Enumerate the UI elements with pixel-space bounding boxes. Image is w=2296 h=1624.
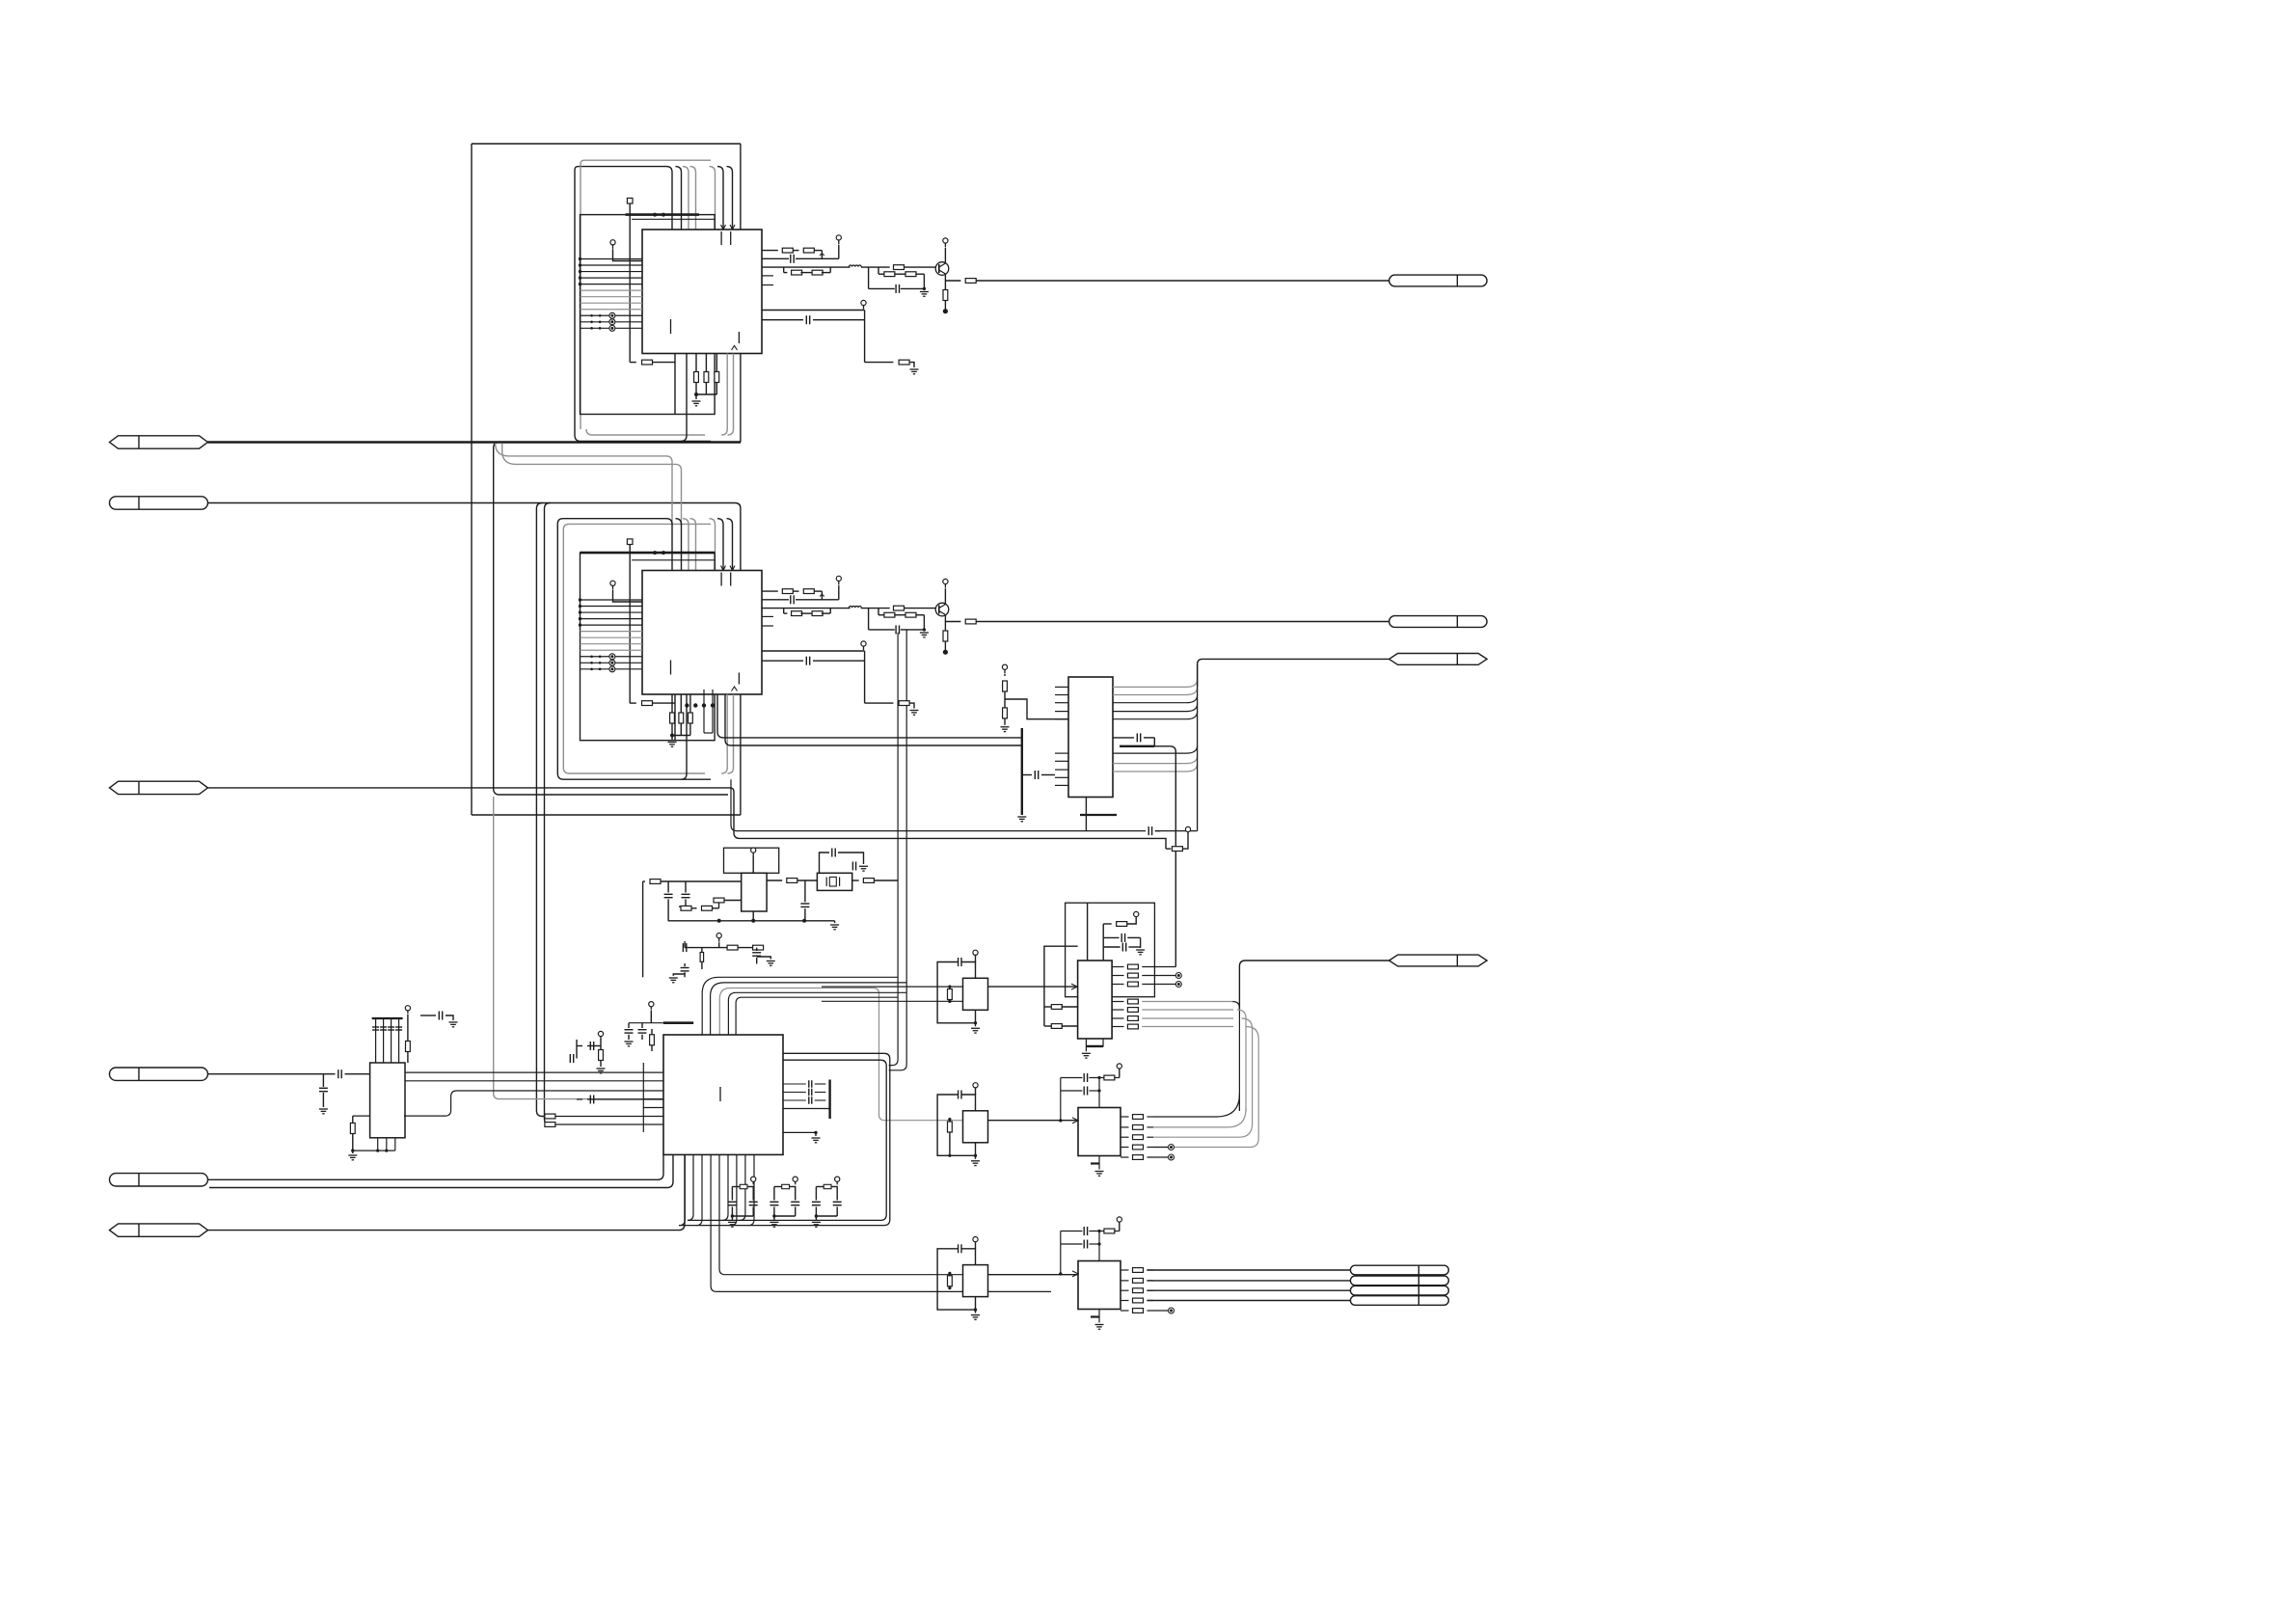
- IC5 right pin to dot gnd: [783, 1131, 816, 1133]
- secondary inner line U2: [632, 559, 715, 561]
- lower right pin rows U2: [762, 650, 865, 652]
- IC10 right terminal cap: [420, 1015, 436, 1016]
- wire terminal to IC U2: [613, 590, 643, 602]
- wires from IC10 to IC5: [404, 1071, 643, 1073]
- oscillator loop rect: [724, 848, 779, 873]
- IC3 right pins to bus: [1113, 686, 1186, 688]
- wire from square pad down U2: [629, 545, 631, 704]
- bus bundle IC5-top to right: [702, 977, 871, 1035]
- IC internal bottom strokes U2: [670, 661, 672, 675]
- wire to IC4 vertical: [1154, 746, 1175, 967]
- wire RPa long: [976, 280, 1389, 282]
- row C main U1: [763, 266, 851, 268]
- crystal symbol: [829, 877, 836, 886]
- outer frame block2 bottom: [472, 814, 741, 816]
- gray bus wire to lower clusters: [871, 988, 963, 1121]
- junction dots on bus U1: [653, 213, 657, 217]
- ground IC3 bus: [1017, 816, 1026, 818]
- IC10 top pins bus: [375, 1018, 377, 1063]
- IC10 bottom pins: [377, 1138, 379, 1150]
- left loop IC8: [1060, 1078, 1062, 1121]
- IC10 top terminal: [405, 1006, 410, 1011]
- ladder tap wire: [1005, 699, 1068, 719]
- output resistor U2: [945, 621, 960, 623]
- wire RPb long: [976, 621, 1389, 623]
- IC3 bottom resistor row: [1166, 848, 1171, 850]
- ladder ground: [1001, 726, 1010, 728]
- IC3 top-right cap: [1113, 737, 1134, 739]
- caps pair osc: [667, 881, 669, 893]
- inner rect U1: [581, 215, 716, 415]
- wire A out: [988, 986, 1078, 988]
- ground IC10: [352, 1150, 354, 1153]
- top pin bundle arcs U2: [666, 519, 672, 571]
- row A hook down U1: [821, 251, 823, 259]
- wire P5b: [209, 1155, 673, 1188]
- junction dots on bus U2: [653, 551, 657, 555]
- transistor Q U2: [935, 603, 949, 616]
- wire IC2 to IC3 row1: [717, 694, 1022, 738]
- inner heavy bus line U2: [581, 552, 716, 555]
- pi ground U2: [920, 632, 929, 634]
- antenna terminal U2: [610, 581, 615, 585]
- halo frame U1 bottom: [575, 435, 711, 442]
- bottom pin long drops: [711, 1155, 1051, 1292]
- IC internal top strokes U2: [720, 573, 722, 586]
- buffer box B: [963, 1111, 988, 1143]
- caps battery bus: [828, 1080, 830, 1120]
- wire P5: [208, 1155, 664, 1180]
- IC5 right pin row plain: [783, 1108, 830, 1110]
- emitter node dot U1: [943, 309, 948, 313]
- cap row1 IC9: [1061, 1231, 1083, 1232]
- wire gray drop left 2: [502, 444, 682, 527]
- filter cap3: [684, 963, 686, 966]
- capacitor on P4 wire: [338, 1069, 339, 1078]
- buffer box C: [963, 1265, 988, 1297]
- ground pedestal IC9: [1098, 1310, 1100, 1323]
- outer frame right block1: [740, 144, 742, 230]
- IC3 (IF/demod IC): [1068, 677, 1113, 798]
- IC4 bottom pedestal: [1086, 1039, 1103, 1046]
- circled dots IC4: [1175, 973, 1181, 979]
- power terminal U2 rowB: [836, 576, 841, 581]
- IC3 bottom heavy bar: [1080, 814, 1117, 816]
- IC3 left cap: [1022, 774, 1032, 776]
- IC3 left bold ground bus: [1021, 728, 1023, 815]
- stub down to res-gnd U1: [864, 320, 866, 363]
- wire from square pad down U1: [629, 203, 631, 363]
- secondary inner line U1: [632, 218, 715, 220]
- IC10 right mid pin wire up: [404, 1091, 643, 1116]
- wire P6: [208, 1155, 686, 1231]
- resistor divider B: [949, 1120, 951, 1122]
- pwr C: [973, 1237, 978, 1242]
- top pin bundle arcs U1: [666, 167, 672, 230]
- wire IC2 to IC3 row2: [725, 694, 1022, 745]
- bottom long pins U1: [681, 354, 687, 442]
- capacitor to ground on P4 node: [322, 1074, 324, 1087]
- IC4 gray bundle corners: [1232, 1002, 1239, 1112]
- cap row2 IC8: [1061, 1090, 1083, 1092]
- filter resistors: [727, 945, 738, 950]
- power terminal oscillator: [751, 848, 756, 853]
- left pin rows U2: [581, 599, 643, 601]
- crystal out resistor: [852, 880, 859, 881]
- IC5 right-side caps battery: [783, 1083, 806, 1085]
- IC internal bottom strokes U1: [670, 319, 672, 334]
- terminal bottom right of IC3: [1185, 826, 1190, 831]
- cap row1 IC8: [1061, 1077, 1083, 1079]
- IF filter cluster: [716, 934, 721, 938]
- ferrite bead U2: [849, 607, 861, 609]
- stub down to res-gnd U2: [864, 661, 866, 703]
- input arrow IC9: [1072, 1271, 1078, 1277]
- IC3 left pins: [1055, 686, 1068, 688]
- dotted rows U1: [590, 314, 593, 317]
- cap top C: [958, 1244, 959, 1253]
- IC5 right output rail inner: [783, 1059, 880, 1061]
- row A hook down U2: [821, 591, 823, 600]
- IC3 right bus vertical: [1197, 664, 1199, 831]
- IC5 (PLL/controller): [663, 1035, 783, 1154]
- lower right pin rows U1: [762, 310, 865, 311]
- row A resistors U2: [763, 590, 778, 592]
- IC5 left pin strip: [642, 1063, 644, 1132]
- cap under crystal-right: [804, 880, 806, 902]
- buffer box A: [963, 978, 988, 1010]
- cap trio under IC5: [751, 1177, 756, 1181]
- connector stack RP4 (4 stadium pills): [1350, 1265, 1448, 1275]
- connector RPb (stadium right): [1390, 616, 1488, 628]
- connector P3 (bidirectional arrow): [110, 781, 208, 794]
- wire P2 corner into frame: [735, 503, 741, 509]
- wire pi to lower section B U2: [889, 630, 907, 1070]
- right resistors IC8: [1121, 1116, 1129, 1118]
- ground: [319, 1108, 328, 1110]
- resistor divider A: [949, 987, 951, 988]
- cap top B: [958, 1091, 959, 1099]
- gnd A: [975, 1010, 977, 1023]
- wire P2: [208, 502, 736, 504]
- IC4 frame caps: [1087, 903, 1089, 961]
- square pad terminal U2: [627, 539, 633, 545]
- bottom pin junction dots U2: [685, 703, 689, 707]
- left vertical drop to bundle: [642, 881, 644, 977]
- pwr A: [973, 950, 978, 955]
- wire C out: [988, 1274, 1079, 1276]
- res row1 IC8: [1104, 1075, 1115, 1080]
- row B cap U1: [763, 257, 790, 259]
- antenna terminal U1: [610, 240, 615, 245]
- loop wire B: [961, 1095, 976, 1111]
- bottom long pins U2: [681, 694, 687, 779]
- inner heavy bus line U1: [626, 213, 700, 216]
- bottom-left resistor U2: [630, 702, 636, 704]
- emitter chain U2: [944, 616, 946, 622]
- crystal box: [817, 873, 851, 890]
- divider RP4: [1418, 1265, 1419, 1305]
- halo frame U2 (rounded): [557, 519, 666, 773]
- IC internal bottom arrow U1: [732, 346, 738, 351]
- wire P1 bold to frame: [208, 441, 742, 443]
- IC IC9 (output driver): [1078, 1261, 1121, 1310]
- left pin rows U1: [581, 258, 643, 260]
- IC2 bottom pin to frame bottom: [740, 694, 742, 815]
- IC5 left pins: [643, 1071, 663, 1073]
- wire gray drop left 1: [496, 444, 672, 527]
- pi network U1: [868, 267, 870, 288]
- IC5 upper-left decoupling cluster: [598, 1031, 603, 1036]
- osc to crystal resistor: [767, 880, 782, 881]
- connector P1 (ANT input, bidirectional arrow): [110, 436, 208, 448]
- resistor divider ladder: [1002, 664, 1007, 669]
- base resistor on row C U1: [894, 265, 905, 270]
- right pins stubs U1: [762, 275, 773, 277]
- cap top A: [958, 958, 959, 966]
- pi res pair U2: [878, 609, 879, 615]
- connector RPa (stadium right): [1390, 275, 1487, 286]
- halo frame U1 (rounded): [575, 167, 666, 435]
- parallel res pair under rowB U1: [783, 267, 785, 273]
- right resistors IC9: [1121, 1269, 1129, 1271]
- connector P4 (stadium): [109, 1068, 207, 1080]
- wires RP4 from IC9: [1147, 1269, 1350, 1271]
- res to osc box: [714, 898, 724, 903]
- IC4 left loop wire: [1044, 946, 1078, 1026]
- power terminal IC8: [1117, 1064, 1121, 1069]
- inner rounded loop block2: [494, 443, 728, 796]
- base resistor on row C U2: [894, 606, 905, 610]
- connector RPc (arrow right): [1390, 654, 1488, 665]
- IC5 bottom pins bundle: [679, 1155, 685, 1226]
- collector terminal U2: [943, 579, 948, 583]
- bus bundle continues right: [871, 976, 898, 978]
- terminal on lower rows U2: [861, 641, 866, 646]
- IC IC8 (output driver): [1078, 1108, 1121, 1156]
- pi ground U1: [920, 291, 929, 293]
- gnd B: [975, 1143, 977, 1156]
- connector P5 (stadium): [109, 1174, 207, 1186]
- res row1 IC9: [1104, 1229, 1115, 1233]
- bottom resistor pins U1: [695, 354, 697, 372]
- resistor divider C: [949, 1273, 951, 1275]
- bottom-left resistor U1: [630, 362, 636, 364]
- output resistor U1: [945, 280, 960, 282]
- cap row2 IC9: [1061, 1243, 1083, 1245]
- wire P3: [208, 788, 1167, 849]
- IC5 left caps pair 2: [649, 1002, 654, 1007]
- IC1 bottom pin to bold wire: [740, 354, 742, 443]
- left loop IC9: [1060, 1232, 1062, 1274]
- wire pi to lower section A U2: [889, 633, 899, 1066]
- gray vertical from heavy line to IC5: [494, 797, 644, 1099]
- collector terminal U1: [943, 238, 948, 243]
- wire RPc from IC3 bus: [1198, 659, 1390, 687]
- ferrite bead U1: [849, 265, 861, 267]
- row B cap U2: [763, 599, 790, 601]
- IC internal top strokes U1: [720, 231, 722, 245]
- osc series resistors: [679, 906, 681, 907]
- wire row1 to box IC9: [1098, 1232, 1100, 1261]
- IC5 internal stroke: [719, 1087, 721, 1101]
- loop wire A: [961, 962, 976, 979]
- left entry resistor: [643, 880, 645, 882]
- resistors on those wires: [545, 1114, 555, 1119]
- inner rect U2: [581, 553, 716, 741]
- wire row1 to box IC8: [1098, 1078, 1100, 1108]
- square pad terminal U1: [627, 198, 633, 203]
- halo frame U2 bottom: [557, 773, 711, 779]
- pi network U2: [868, 609, 870, 630]
- IC4 left resistors: [1044, 1006, 1052, 1008]
- emitter node dot U2: [943, 650, 948, 655]
- top right caps loop: [820, 853, 830, 873]
- bottom rail osc: [668, 920, 835, 922]
- power terminal U1 rowB: [836, 235, 841, 240]
- gnd top right: [859, 865, 868, 867]
- outer frame top: [472, 143, 741, 145]
- IC10 (EEPROM): [370, 1063, 405, 1138]
- gnd C: [975, 1297, 977, 1311]
- outer frame block2 right upper: [740, 508, 742, 571]
- loop wire C: [961, 1249, 976, 1265]
- pwr B: [973, 1083, 978, 1088]
- pin arrowheads U1: [721, 225, 726, 230]
- emitter chain U1: [944, 275, 946, 281]
- transistor Q U1: [935, 262, 949, 276]
- filter caps: [684, 941, 686, 948]
- power terminal IC9: [1117, 1217, 1121, 1222]
- ground pedestal IC8: [1098, 1156, 1100, 1170]
- IC main U2 (tuner IC): [642, 571, 762, 695]
- filter vertical element: [700, 953, 704, 962]
- row C main U2: [763, 608, 851, 609]
- IC4 right pins+resistors: [1112, 966, 1123, 968]
- connector P2 (stadium): [109, 497, 207, 509]
- IC5 caps left of box: [587, 1098, 663, 1100]
- ground bottom rail: [834, 921, 836, 923]
- IC10 top caps: [372, 1026, 379, 1028]
- parallel res pair under rowB U2: [783, 609, 785, 614]
- filter cap2: [756, 948, 758, 951]
- dotted rows U2: [590, 655, 593, 658]
- oscillator IC box: [742, 873, 767, 911]
- IC3 bold right wire: [1120, 745, 1154, 747]
- right pins stubs U2: [762, 615, 773, 617]
- bottom resistor pins U2: [671, 694, 673, 713]
- IC5 right output rail outer: [783, 1052, 884, 1054]
- row A resistors U1: [763, 250, 778, 252]
- connector RPd (arrow right): [1390, 955, 1488, 966]
- connector P6 (bidirectional arrow): [110, 1224, 208, 1236]
- wire P4 to cap: [208, 1073, 336, 1075]
- terminal on lower rows U1: [861, 300, 866, 305]
- IC3 bottom caps and resistor: [731, 779, 1146, 830]
- outer frame block1+2 left edge: [471, 144, 473, 815]
- IC5 left resistor: [650, 1035, 655, 1045]
- gray bundle to IC8: [1153, 1094, 1239, 1117]
- IC internal bottom arrow U2: [732, 687, 738, 691]
- pin arrowheads U2: [721, 566, 726, 571]
- pi res pair U1: [878, 267, 879, 274]
- IC main U1 (tuner IC): [642, 230, 762, 354]
- IC5 outputs to buffer A: [822, 986, 963, 988]
- input arrow IC8: [1072, 1118, 1078, 1123]
- IC4 frame rect: [1066, 903, 1155, 996]
- verticals from block frames down to IC5: [536, 503, 545, 1117]
- wire B out: [988, 1120, 1079, 1122]
- IC10 left resistor: [353, 1115, 370, 1117]
- wire RPd: [1239, 961, 1389, 1010]
- IC4 (prescaler): [1078, 961, 1113, 1039]
- wire terminal to IC U1: [613, 249, 643, 260]
- wire cap to IC10: [345, 1073, 370, 1075]
